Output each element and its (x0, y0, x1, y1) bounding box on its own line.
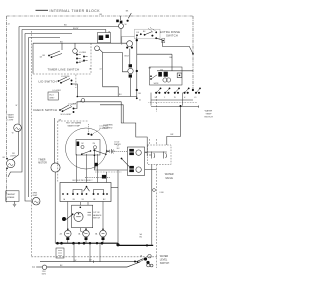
svg-text:SWITCH: SWITCH (160, 262, 170, 265)
svg-text:SWITCH: SWITCH (93, 217, 101, 219)
svg-text:SWITCH: SWITCH (166, 34, 178, 38)
svg-text:VALVE: VALVE (165, 177, 173, 180)
svg-text:TIMER LINE SWITCH: TIMER LINE SWITCH (48, 67, 80, 71)
svg-text:TEMP: TEMP (205, 114, 212, 116)
svg-text:FRAME: FRAME (7, 196, 15, 199)
svg-text:C-BU: C-BU (159, 192, 164, 194)
svg-text:LO-PINK: LO-PINK (69, 104, 77, 106)
svg-text:W-LO-GREY: W-LO-GREY (61, 114, 73, 116)
svg-text:60HZ: 60HZ (42, 273, 46, 275)
svg-text:LIGHT: LIGHT (8, 120, 15, 122)
svg-text:WATER: WATER (205, 110, 213, 113)
svg-text:CHECK SWITCH: CHECK SWITCH (33, 108, 57, 112)
svg-text:MOTOR: MOTOR (38, 162, 47, 164)
svg-text:HOT OR WARM: HOT OR WARM (66, 122, 81, 125)
svg-text:LIGHT: LIGHT (10, 155, 16, 157)
svg-text:WASH: WASH (8, 113, 14, 116)
svg-text:CABINET: CABINET (7, 193, 16, 196)
svg-text:50: 50 (125, 24, 127, 26)
svg-text:WASH TEMP: WASH TEMP (68, 125, 81, 128)
svg-text:LID SWITCH: LID SWITCH (39, 80, 57, 84)
svg-text:TIMER: TIMER (38, 159, 45, 161)
svg-text:LO-GREY: LO-GREY (53, 90, 62, 92)
svg-text:W: W (75, 260, 77, 262)
svg-text:1A 2B: 1A 2B (154, 82, 160, 85)
svg-text:BU/W: BU/W (73, 28, 78, 30)
svg-text:W: W (12, 133, 14, 135)
svg-text:N: N (32, 265, 34, 269)
svg-text:HI-SPEED: HI-SPEED (100, 128, 109, 130)
svg-text:W: W (89, 69, 91, 71)
svg-text:4J: 4J (8, 24, 10, 26)
svg-text:INTERNAL TIMER BLOCK: INTERNAL TIMER BLOCK (50, 9, 101, 13)
svg-text:LIGHT: LIGHT (32, 195, 38, 197)
svg-text:4J: 4J (139, 100, 141, 102)
svg-text:LO-BU: LO-BU (79, 61, 85, 63)
svg-text:4J: 4J (100, 69, 102, 71)
svg-text:BK 1M W 2M R 3M BU Y: BK 1M W 2M R 3M BU Y (73, 180, 94, 182)
svg-text:LO-RED: LO-RED (79, 52, 87, 54)
svg-text:BALANCE: BALANCE (93, 214, 103, 217)
svg-text:GREY: GREY (49, 98, 55, 100)
svg-text:W: W (16, 105, 18, 107)
svg-text:BK-R: BK-R (125, 56, 130, 58)
svg-text:W-LO: W-LO (49, 95, 54, 97)
svg-text:WATER: WATER (165, 173, 174, 176)
svg-text:SWITCH: SWITCH (204, 117, 213, 119)
svg-text:C-BU: C-BU (111, 151, 116, 153)
